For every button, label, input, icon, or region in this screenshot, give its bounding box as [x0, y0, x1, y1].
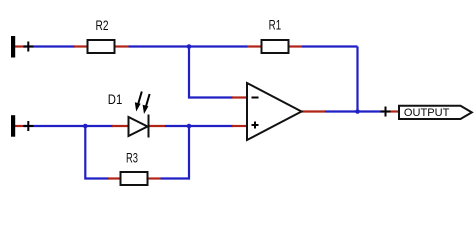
terminal J2 [11, 115, 33, 137]
resistor R1 [262, 18, 289, 54]
resistor R2 [88, 18, 115, 53]
wire: red lead terminal J2 to wire [14, 125, 26, 127]
terminal J1 [11, 36, 33, 58]
wire: red lead to op-amp non-inverting input [232, 125, 247, 127]
wire: top rail blue from R2 to R1 through node A [129, 45, 249, 47]
wire: red left lead of R2 [74, 45, 88, 47]
junction node D [355, 109, 360, 114]
output plus marker [381, 107, 391, 117]
wire: red lead to op-amp inverting input [232, 96, 247, 98]
junction node B [83, 124, 88, 129]
junction node C [187, 124, 192, 129]
wire: R3 branch blue from R3 right lead up to node C [161, 126, 190, 179]
wire: red lead from output plus to OUTPUT flag [386, 110, 400, 112]
wire: bottom rail blue from terminal J2 to diode left lead [24, 125, 113, 127]
svg-text:D1: D1 [108, 92, 123, 107]
wire: red left lead of R3 [108, 177, 121, 179]
photodiode D1 light arrow 2 [143, 94, 150, 114]
svg-text:R1: R1 [269, 18, 282, 33]
wire: red right lead of R1 [288, 45, 302, 47]
wire: top rail blue from terminal J1 plus to R2 left lead [24, 45, 75, 47]
wire: red left lead of R1 [247, 45, 262, 47]
wire: red right lead of R2 [114, 45, 129, 47]
wire: inverting input branch blue from node A down and right [189, 47, 233, 98]
wire: feedback vertical blue down to output node D [356, 47, 358, 112]
wire: output rail blue through node D to output plus [325, 110, 384, 112]
photodiode D1 light arrow 1 [135, 92, 142, 112]
junction node A [187, 44, 192, 49]
wire: red right lead of R3 [147, 177, 161, 179]
wire: R3 branch blue from node B down to R3 left lead [85, 126, 109, 179]
op-amp U1 [247, 83, 302, 140]
resistor R3 [121, 151, 148, 186]
wire: red left lead of D1 [112, 125, 129, 127]
wire: red right lead of D1 [149, 125, 166, 127]
svg-text:R3: R3 [126, 151, 138, 166]
OUTPUT flag [399, 106, 472, 119]
wire: bottom rail blue from D1 to op-amp branch [165, 125, 233, 127]
photodiode D1 [108, 92, 149, 138]
wire: red op-amp output lead [302, 110, 326, 112]
svg-text:OUTPUT: OUTPUT [404, 107, 450, 119]
wire: blue from R1 right lead to feedback corner [302, 45, 358, 47]
svg-text:R2: R2 [96, 18, 109, 33]
wire: red lead terminal J1 to wire [14, 45, 26, 47]
